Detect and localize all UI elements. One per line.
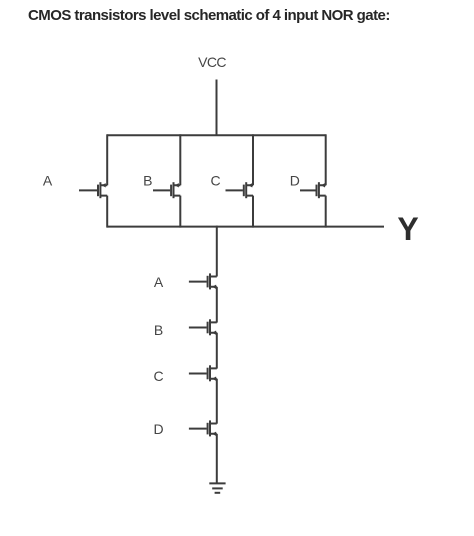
svg-text:C: C [210,173,220,189]
nmos Q5 input A [189,273,217,289]
svg-text:B: B [154,322,163,338]
wire Q1 source to output rail [106,196,108,228]
pmos Q3 input C [226,182,254,198]
pmos Q2 input B [153,182,180,198]
wire Q4 source to output rail [325,196,327,228]
wire Q4 drain to VCC rail [325,134,327,185]
pmos Q1 input A [79,182,107,198]
pmos Q4 input D [300,182,326,198]
wire Q6 source to Q7 drain [216,333,218,369]
wire top VCC rail [107,134,326,136]
wire Q5 source to Q6 drain [216,287,218,323]
nmos Q7 input C [189,365,217,381]
nmos Q6 input B [189,319,217,335]
svg-text:Y: Y [397,211,418,247]
ground symbol [209,483,225,492]
svg-text:A: A [154,274,164,290]
wire Q2 source to output rail [179,196,181,228]
svg-text:B: B [143,173,152,189]
wire Q8 source to ground [216,434,218,484]
nmos Q8 input D [189,420,217,436]
svg-text:D: D [153,421,163,437]
wire VCC stem [216,80,218,136]
wire bottom output rail [107,226,384,228]
svg-text:VCC: VCC [198,54,226,70]
wire Q2 drain to VCC rail [179,134,181,185]
svg-text:CMOS transistors level schemat: CMOS transistors level schematic of 4 in… [28,7,390,24]
wire Q7 source to Q8 drain [216,379,218,424]
svg-text:A: A [43,173,53,189]
svg-text:C: C [153,368,163,384]
wire Q3 drain to VCC rail [252,134,254,185]
wire Q3 source to output rail [252,196,254,228]
svg-text:D: D [290,173,300,189]
wire Q1 drain to VCC rail [106,134,108,185]
wire output node down to pull-down chain [216,226,218,277]
